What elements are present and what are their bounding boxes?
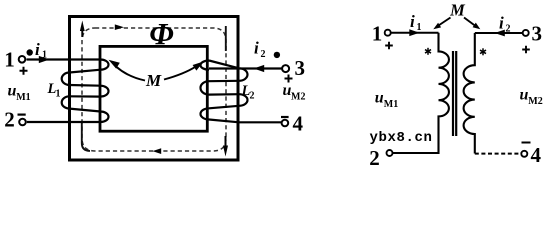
svg-text:2: 2	[250, 91, 255, 102]
M arrow to right coil	[464, 18, 476, 27]
svg-text:u: u	[8, 83, 17, 100]
flux arrow right (top)	[115, 24, 124, 30]
svg-text:M1: M1	[16, 92, 30, 103]
flux solid segment top-right	[225, 26, 227, 51]
minus sign terminal 4	[281, 116, 289, 118]
M arrow to left coil	[439, 18, 451, 26]
svg-text:i: i	[410, 12, 415, 31]
plus sign terminal 1'	[385, 42, 393, 50]
svg-text:4: 4	[293, 112, 304, 136]
current arrow i2' (points left)	[495, 30, 505, 37]
coil L2'	[464, 33, 475, 154]
flux arrow left (bottom)	[153, 148, 162, 154]
minus sign terminal 2	[18, 113, 26, 115]
terminal 4'	[521, 151, 527, 157]
flux path dashed loop	[82, 28, 226, 151]
svg-text:3: 3	[532, 22, 543, 46]
svg-text:i: i	[499, 14, 504, 33]
dot marker terminal 3	[274, 52, 280, 58]
svg-text:2: 2	[261, 49, 266, 60]
winding L2	[201, 61, 282, 123]
svg-text:u: u	[520, 87, 529, 104]
svg-text:Φ: Φ	[149, 16, 173, 51]
dot marker (asterisk) left coil	[425, 48, 431, 55]
svg-text:3: 3	[295, 56, 306, 80]
core bars	[452, 51, 454, 136]
svg-text:M2: M2	[528, 96, 542, 107]
terminal 2'	[387, 150, 393, 156]
dot marker (asterisk) right coil	[480, 48, 486, 55]
terminal 3 wire	[209, 67, 282, 69]
svg-text:1: 1	[417, 22, 422, 33]
svg-text:u: u	[375, 89, 384, 106]
plus sign terminal 1	[20, 67, 28, 75]
dot marker terminal 1	[27, 49, 33, 55]
wire terminal1' to coil	[391, 32, 439, 34]
core outer rectangle	[70, 17, 239, 161]
svg-text:1: 1	[56, 89, 61, 100]
svg-text:1: 1	[372, 22, 383, 46]
svg-text:ybx8.cn: ybx8.cn	[370, 130, 433, 146]
core inner window rectangle	[100, 46, 207, 131]
terminal 4' dashed wire	[475, 153, 521, 155]
svg-text:2: 2	[369, 146, 380, 168]
current arrow i1	[39, 56, 50, 63]
flux arrow down (right leg)	[225, 136, 227, 147]
svg-text:M2: M2	[291, 92, 305, 103]
current arrow i1'	[409, 29, 419, 36]
terminal 3' wire	[475, 32, 523, 34]
winding L1	[27, 60, 109, 123]
svg-text:i: i	[35, 40, 40, 59]
svg-text:M: M	[145, 71, 162, 90]
svg-text:M: M	[449, 1, 466, 20]
terminal 3	[282, 65, 289, 72]
svg-text:2: 2	[506, 24, 511, 35]
M arrow to right winding	[164, 66, 196, 79]
svg-text:2: 2	[4, 108, 15, 132]
plus sign terminal 3'	[522, 46, 530, 54]
svg-text:M1: M1	[384, 99, 398, 110]
minus sign terminal 4'	[522, 142, 531, 144]
svg-text:i: i	[254, 39, 259, 58]
flux arrow up (left leg)	[81, 30, 83, 37]
terminal 3'	[523, 30, 529, 36]
plus sign terminal 3	[285, 75, 293, 83]
svg-text:1: 1	[4, 48, 15, 72]
flux solid segment bottom-left	[82, 122, 90, 151]
coil L1'	[393, 33, 449, 153]
M arrow to left winding	[116, 67, 145, 81]
svg-text:4: 4	[531, 143, 542, 167]
current arrow i2 (points left)	[254, 65, 265, 72]
